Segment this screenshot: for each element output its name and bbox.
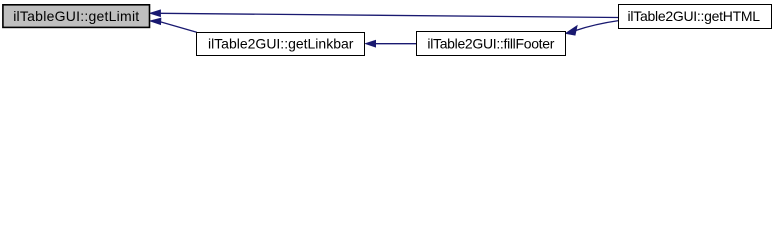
edge getHTML to fillFooter [566, 21, 619, 35]
node ilTable2GUI::fillFooter [417, 32, 566, 56]
svg-text:ilTable2GUI::getLinkbar: ilTable2GUI::getLinkbar [208, 36, 354, 52]
svg-text:ilTableGUI::getLimit: ilTableGUI::getLimit [13, 8, 139, 24]
arrowhead at getLinkbar [366, 40, 376, 47]
edge fillFooter to getLinkbar [366, 40, 417, 47]
node ilTable2GUI::getLinkbar [197, 33, 365, 56]
arrowhead at fillFooter [566, 26, 577, 35]
svg-text:ilTable2GUI::getHTML: ilTable2GUI::getHTML [628, 8, 761, 24]
svg-text:ilTable2GUI::fillFooter: ilTable2GUI::fillFooter [427, 36, 554, 52]
edge getLinkbar to getLimit [150, 18, 197, 32]
arrowhead at getLimit (top) [150, 10, 160, 16]
node ilTable2GUI::getHTML [619, 5, 772, 29]
edge getHTML to getLimit [150, 10, 618, 17]
arrowhead at getLimit (bottom) [150, 18, 161, 24]
node ilTableGUI::getLimit (current, grey) [3, 5, 150, 28]
